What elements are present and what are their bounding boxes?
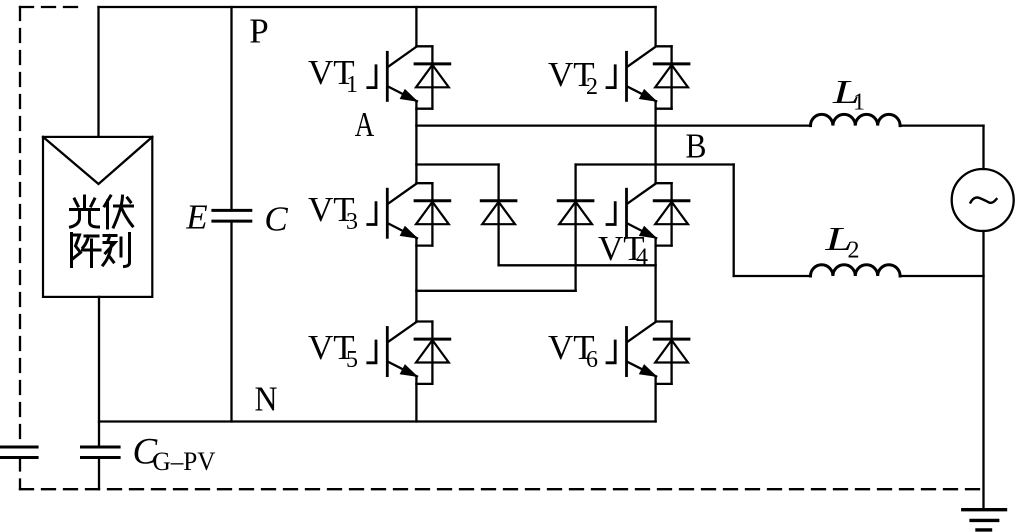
svg-text:C: C — [264, 200, 288, 239]
transistor VT6 — [607, 322, 689, 384]
wire: L2 line — [734, 275, 984, 277]
svg-text:5: 5 — [346, 347, 358, 373]
wire: node A line to L1 — [416, 124, 983, 126]
svg-text:6: 6 — [586, 347, 598, 373]
svg-text:A: A — [355, 105, 375, 144]
svg-text:4: 4 — [636, 245, 648, 271]
clamp diode D8 — [574, 165, 576, 291]
svg-text:3: 3 — [346, 209, 358, 235]
wire: clamp diode D8 cathode to node B drop — [576, 163, 734, 165]
svg-text:G–PV: G–PV — [153, 447, 216, 476]
svg-text:N: N — [255, 380, 278, 419]
grid-side capacitor at left edge — [0, 447, 37, 458]
clamp diode D7 — [497, 165, 499, 266]
ground — [963, 508, 1006, 511]
PV array text line 2 (hand-drawn 阵) — [72, 234, 101, 267]
PV array chevron — [43, 137, 152, 184]
PV array box — [43, 137, 152, 297]
wire: right vertical below AC source — [982, 231, 984, 510]
transistor VT2 — [607, 46, 689, 108]
wire: D8 anode to left leg — [416, 290, 575, 292]
wire: right leg segments — [654, 7, 656, 422]
transistor VT3 — [368, 183, 450, 245]
AC source circle — [952, 169, 1014, 231]
svg-text:2: 2 — [586, 74, 598, 100]
capacitor C (E) plates — [213, 210, 251, 221]
svg-text:1: 1 — [853, 90, 865, 116]
transistor VT1 — [368, 46, 450, 108]
wire: left leg segments — [415, 7, 417, 422]
svg-text:P: P — [249, 12, 268, 51]
capacitor C top lead — [230, 7, 232, 210]
svg-text:E: E — [185, 198, 207, 237]
wire: bottom N rail — [99, 420, 656, 422]
AC source tilde — [971, 198, 997, 203]
transistor VT5 — [368, 322, 450, 384]
PV array bottom lead — [98, 297, 100, 447]
dashed PV-frame top edge — [20, 6, 79, 8]
inductor L2 — [811, 265, 901, 276]
wire: node A to clamp diode D7 cathode — [416, 163, 498, 165]
wire: D7 anode to right leg — [499, 264, 656, 266]
capacitor CG-PV plates — [82, 447, 120, 458]
wire: node B drop to L2 — [733, 165, 735, 277]
PV array text line 1 (hand-drawn 伏) — [105, 196, 133, 228]
svg-text:1: 1 — [346, 72, 358, 98]
inductor L1 — [811, 114, 901, 125]
dashed PV-frame bottom edge — [20, 488, 984, 490]
capacitor CG-PV bottom lead — [98, 458, 100, 490]
capacitor C bottom lead — [230, 221, 232, 421]
svg-text:2: 2 — [848, 238, 860, 264]
PV array text line 2 (hand-drawn 列) — [103, 234, 130, 267]
wire: top P rail — [99, 6, 656, 8]
svg-text:B: B — [686, 127, 707, 166]
wire: PV array top lead — [97, 7, 99, 137]
wire: right vertical above AC source — [982, 126, 984, 169]
transistor VT4 — [607, 183, 689, 245]
PV array text line 1 (hand-drawn 光) — [71, 196, 99, 227]
dashed PV-frame left edge — [19, 7, 21, 489]
